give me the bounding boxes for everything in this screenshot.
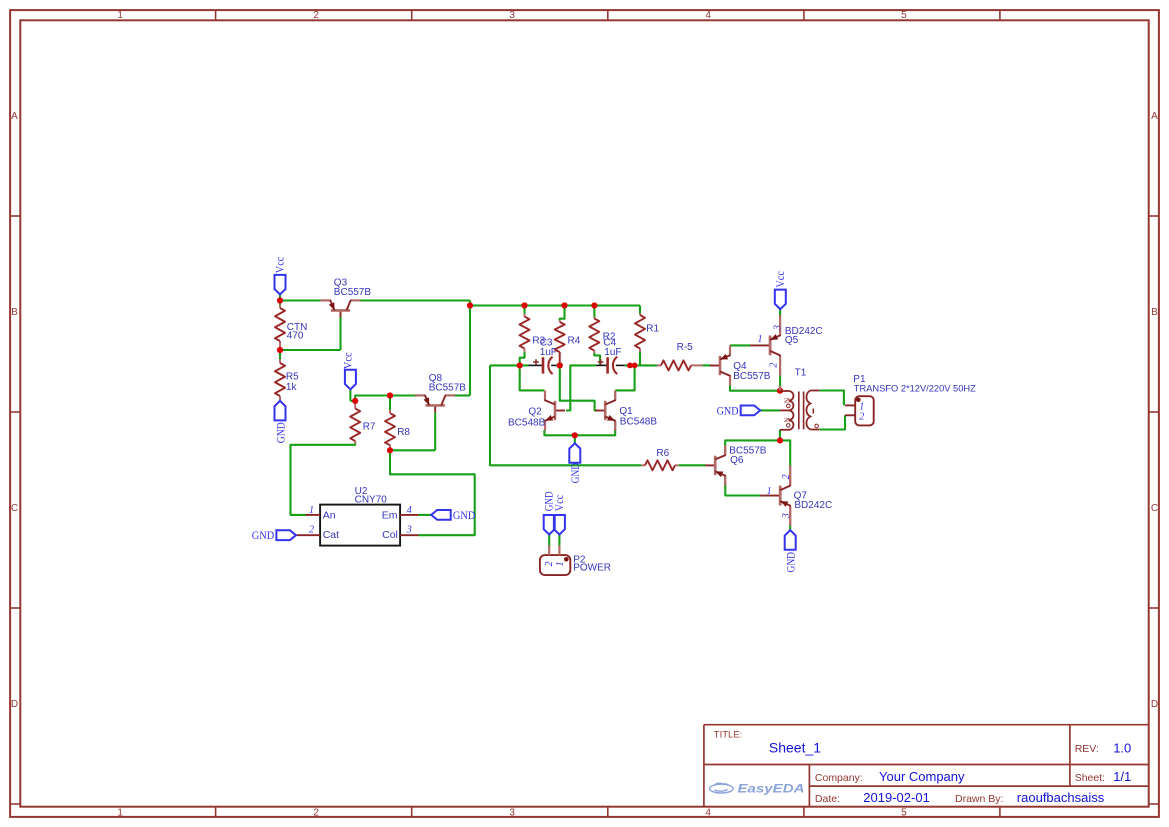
svg-text:1: 1 — [767, 486, 772, 497]
transistor Q7 BD242C (PNP power) — [760, 495, 780, 497]
svg-text:3: 3 — [509, 807, 515, 818]
svg-text:3: 3 — [781, 513, 792, 519]
junction dot R2 top — [591, 302, 597, 308]
resistor R7 — [354, 404, 356, 409]
svg-text:Sheet_1: Sheet_1 — [769, 740, 821, 756]
svg-text:1: 1 — [758, 334, 763, 345]
svg-text:N: N — [782, 397, 791, 403]
connector P2 POWER — [540, 555, 570, 575]
svg-text:2: 2 — [544, 561, 555, 566]
svg-text:2: 2 — [859, 412, 864, 423]
transistor Q3 BC557B (PNP, base down) — [340, 310, 342, 317]
svg-text:N: N — [782, 417, 791, 423]
svg-text:R8: R8 — [397, 427, 410, 438]
junction dot C3 right node — [557, 362, 563, 368]
svg-text:POWER: POWER — [573, 563, 611, 574]
transformer T1 — [779, 386, 781, 391]
resistor R6 — [641, 464, 645, 466]
svg-text:Col: Col — [382, 529, 398, 541]
ground flag GND (U2 Cat) — [276, 530, 296, 540]
svg-text:BC548B: BC548B — [508, 418, 546, 429]
power flag Vcc (P2 pin1) — [554, 515, 565, 535]
svg-text:3: 3 — [406, 524, 412, 535]
EasyEDA logo — [710, 783, 734, 793]
resistor CTN 470 (thermistor) — [279, 305, 281, 309]
svg-text:1.0: 1.0 — [1113, 741, 1131, 756]
svg-text:GND: GND — [568, 463, 582, 484]
svg-text:GND: GND — [717, 403, 739, 417]
svg-text:470: 470 — [287, 331, 304, 342]
svg-text:GND: GND — [252, 528, 275, 542]
title block — [703, 725, 705, 808]
svg-text:Sheet:: Sheet: — [1075, 772, 1105, 784]
svg-text:REV:: REV: — [1075, 743, 1099, 755]
svg-text:2: 2 — [309, 524, 314, 535]
svg-text:Q2: Q2 — [528, 407, 542, 418]
svg-text:2019-02-01: 2019-02-01 — [863, 790, 930, 805]
svg-text:4: 4 — [407, 505, 412, 516]
svg-text:1: 1 — [555, 561, 566, 566]
svg-text:A: A — [1151, 111, 1158, 122]
junction dot rail jog x=470 — [467, 302, 473, 308]
svg-text:Vcc: Vcc — [340, 352, 354, 369]
transistor Q5 BD242C (PNP power) — [750, 344, 770, 346]
svg-text:4: 4 — [705, 807, 711, 818]
svg-text:Em: Em — [382, 509, 398, 521]
svg-text:Q5: Q5 — [785, 335, 799, 346]
svg-text:Cat: Cat — [323, 529, 339, 541]
transistor Q1 BC548B (NPN) — [595, 410, 605, 412]
svg-text:Vcc: Vcc — [273, 257, 287, 274]
svg-text:5: 5 — [901, 807, 907, 818]
svg-text:1uF: 1uF — [604, 347, 621, 358]
svg-text:R4: R4 — [568, 336, 581, 347]
svg-text:Vcc: Vcc — [552, 495, 566, 512]
capacitor C3 1uF (polarized) — [529, 364, 543, 366]
junction dot CTN/R5 node — [277, 347, 283, 353]
svg-text:R6: R6 — [656, 448, 669, 459]
svg-text:1uF: 1uF — [540, 347, 557, 358]
svg-text:Q6: Q6 — [730, 455, 744, 466]
ground flag GND (T1 center tap) — [741, 406, 761, 416]
svg-text:1k: 1k — [286, 382, 298, 393]
svg-text:EasyEDA: EasyEDA — [738, 781, 805, 795]
svg-text:GND: GND — [273, 422, 287, 443]
svg-text:BD242C: BD242C — [794, 500, 832, 511]
junction dot R8 bottom node — [387, 447, 393, 453]
ground flag GND (Q1/Q2 emitters) — [569, 443, 580, 463]
transistor Q8 BC557B (PNP, base down) — [434, 405, 436, 412]
svg-text:5: 5 — [901, 10, 907, 21]
svg-text:R-5: R-5 — [677, 342, 694, 353]
ground flag GND (U2 Em) — [431, 510, 451, 520]
junction dot C4 right node b — [632, 363, 638, 369]
junction dot emitters GND node — [572, 432, 578, 438]
resistor R3 — [524, 314, 526, 317]
junction dot C3 left node — [517, 362, 523, 368]
svg-text:1: 1 — [117, 10, 123, 21]
svg-text:2: 2 — [781, 474, 792, 479]
resistor R4 — [559, 320, 561, 322]
svg-text:Drawn By:: Drawn By: — [955, 793, 1003, 805]
svg-text:D: D — [11, 699, 18, 710]
svg-text:BC557B: BC557B — [429, 382, 467, 393]
ground flag GND (below R5) — [275, 401, 286, 421]
power flag Vcc (net Vcc, second) — [345, 370, 356, 390]
svg-text:T1: T1 — [795, 368, 807, 379]
resistor R-5 — [657, 364, 661, 366]
svg-text:CNY70: CNY70 — [355, 495, 388, 506]
connector P1 TRANSFO — [855, 396, 874, 425]
power flag Vcc (net Vcc, top-left) — [275, 275, 286, 295]
junction dot R3 top — [521, 302, 527, 308]
ground flag GND (below Q7) — [785, 530, 796, 550]
junction dot R8 top node — [387, 392, 393, 398]
svg-text:BC557B: BC557B — [334, 287, 372, 298]
svg-text:An: An — [323, 509, 336, 521]
svg-text:2: 2 — [313, 807, 319, 818]
transistor Q6 BC557B (PNP) — [705, 464, 715, 466]
svg-text:GND: GND — [784, 552, 798, 573]
junction dot Q4/Q5 collectors (T1 top) — [777, 388, 783, 394]
svg-text:D: D — [1151, 699, 1158, 710]
resistor R2 — [593, 317, 595, 319]
svg-text:Your Company: Your Company — [879, 769, 965, 784]
transistor Q2 BC548B (NPN, mirrored) — [555, 410, 565, 412]
svg-text:3: 3 — [509, 10, 515, 21]
junction dot C4 right node a — [627, 363, 633, 369]
svg-text:TITLE:: TITLE: — [714, 730, 743, 741]
svg-text:Vcc: Vcc — [773, 271, 787, 288]
svg-text:4: 4 — [705, 10, 711, 21]
power flag Vcc (above Q5) — [775, 290, 786, 310]
junction dot node Vcc/CTN — [277, 297, 283, 303]
svg-text:Date:: Date: — [815, 793, 840, 805]
svg-text:2: 2 — [313, 10, 319, 21]
junction dot R4 top — [561, 302, 567, 308]
junction dot T1 bottom node — [777, 437, 783, 443]
svg-text:C: C — [1151, 503, 1158, 514]
svg-text:GND: GND — [453, 508, 476, 522]
junction dot Vcc2 node — [352, 398, 358, 404]
wires (green nets) — [279, 295, 281, 306]
svg-text:B: B — [11, 307, 18, 318]
svg-text:C: C — [11, 503, 18, 514]
IC U2 CNY70 (opto) — [320, 505, 400, 546]
transistor Q4 BC557B (PNP) — [710, 365, 720, 367]
svg-text:1: 1 — [309, 505, 314, 516]
svg-text:A: A — [11, 111, 18, 122]
svg-text:BC548B: BC548B — [620, 417, 658, 428]
resistor R1 — [639, 313, 641, 315]
svg-text:TRANSFO 2*12V/220V 50HZ: TRANSFO 2*12V/220V 50HZ — [854, 383, 977, 393]
svg-text:R5: R5 — [286, 372, 299, 383]
svg-text:BC557B: BC557B — [733, 371, 771, 382]
svg-text:R7: R7 — [363, 422, 376, 433]
svg-text:R1: R1 — [646, 324, 659, 335]
resistor R5 1k — [279, 359, 281, 363]
svg-text:1: 1 — [117, 807, 123, 818]
svg-text:Company:: Company: — [815, 772, 863, 784]
svg-text:2: 2 — [768, 363, 779, 368]
ground flag GND (P2 pin2) — [544, 515, 555, 535]
svg-text:3: 3 — [772, 325, 783, 331]
svg-text:Q1: Q1 — [619, 406, 633, 417]
capacitor C4 1uF (polarized) — [596, 364, 607, 366]
svg-text:B: B — [1151, 307, 1158, 318]
svg-text:1/1: 1/1 — [1113, 769, 1131, 784]
svg-text:raoufbachsaiss: raoufbachsaiss — [1017, 790, 1105, 805]
resistor R8 — [389, 410, 391, 413]
